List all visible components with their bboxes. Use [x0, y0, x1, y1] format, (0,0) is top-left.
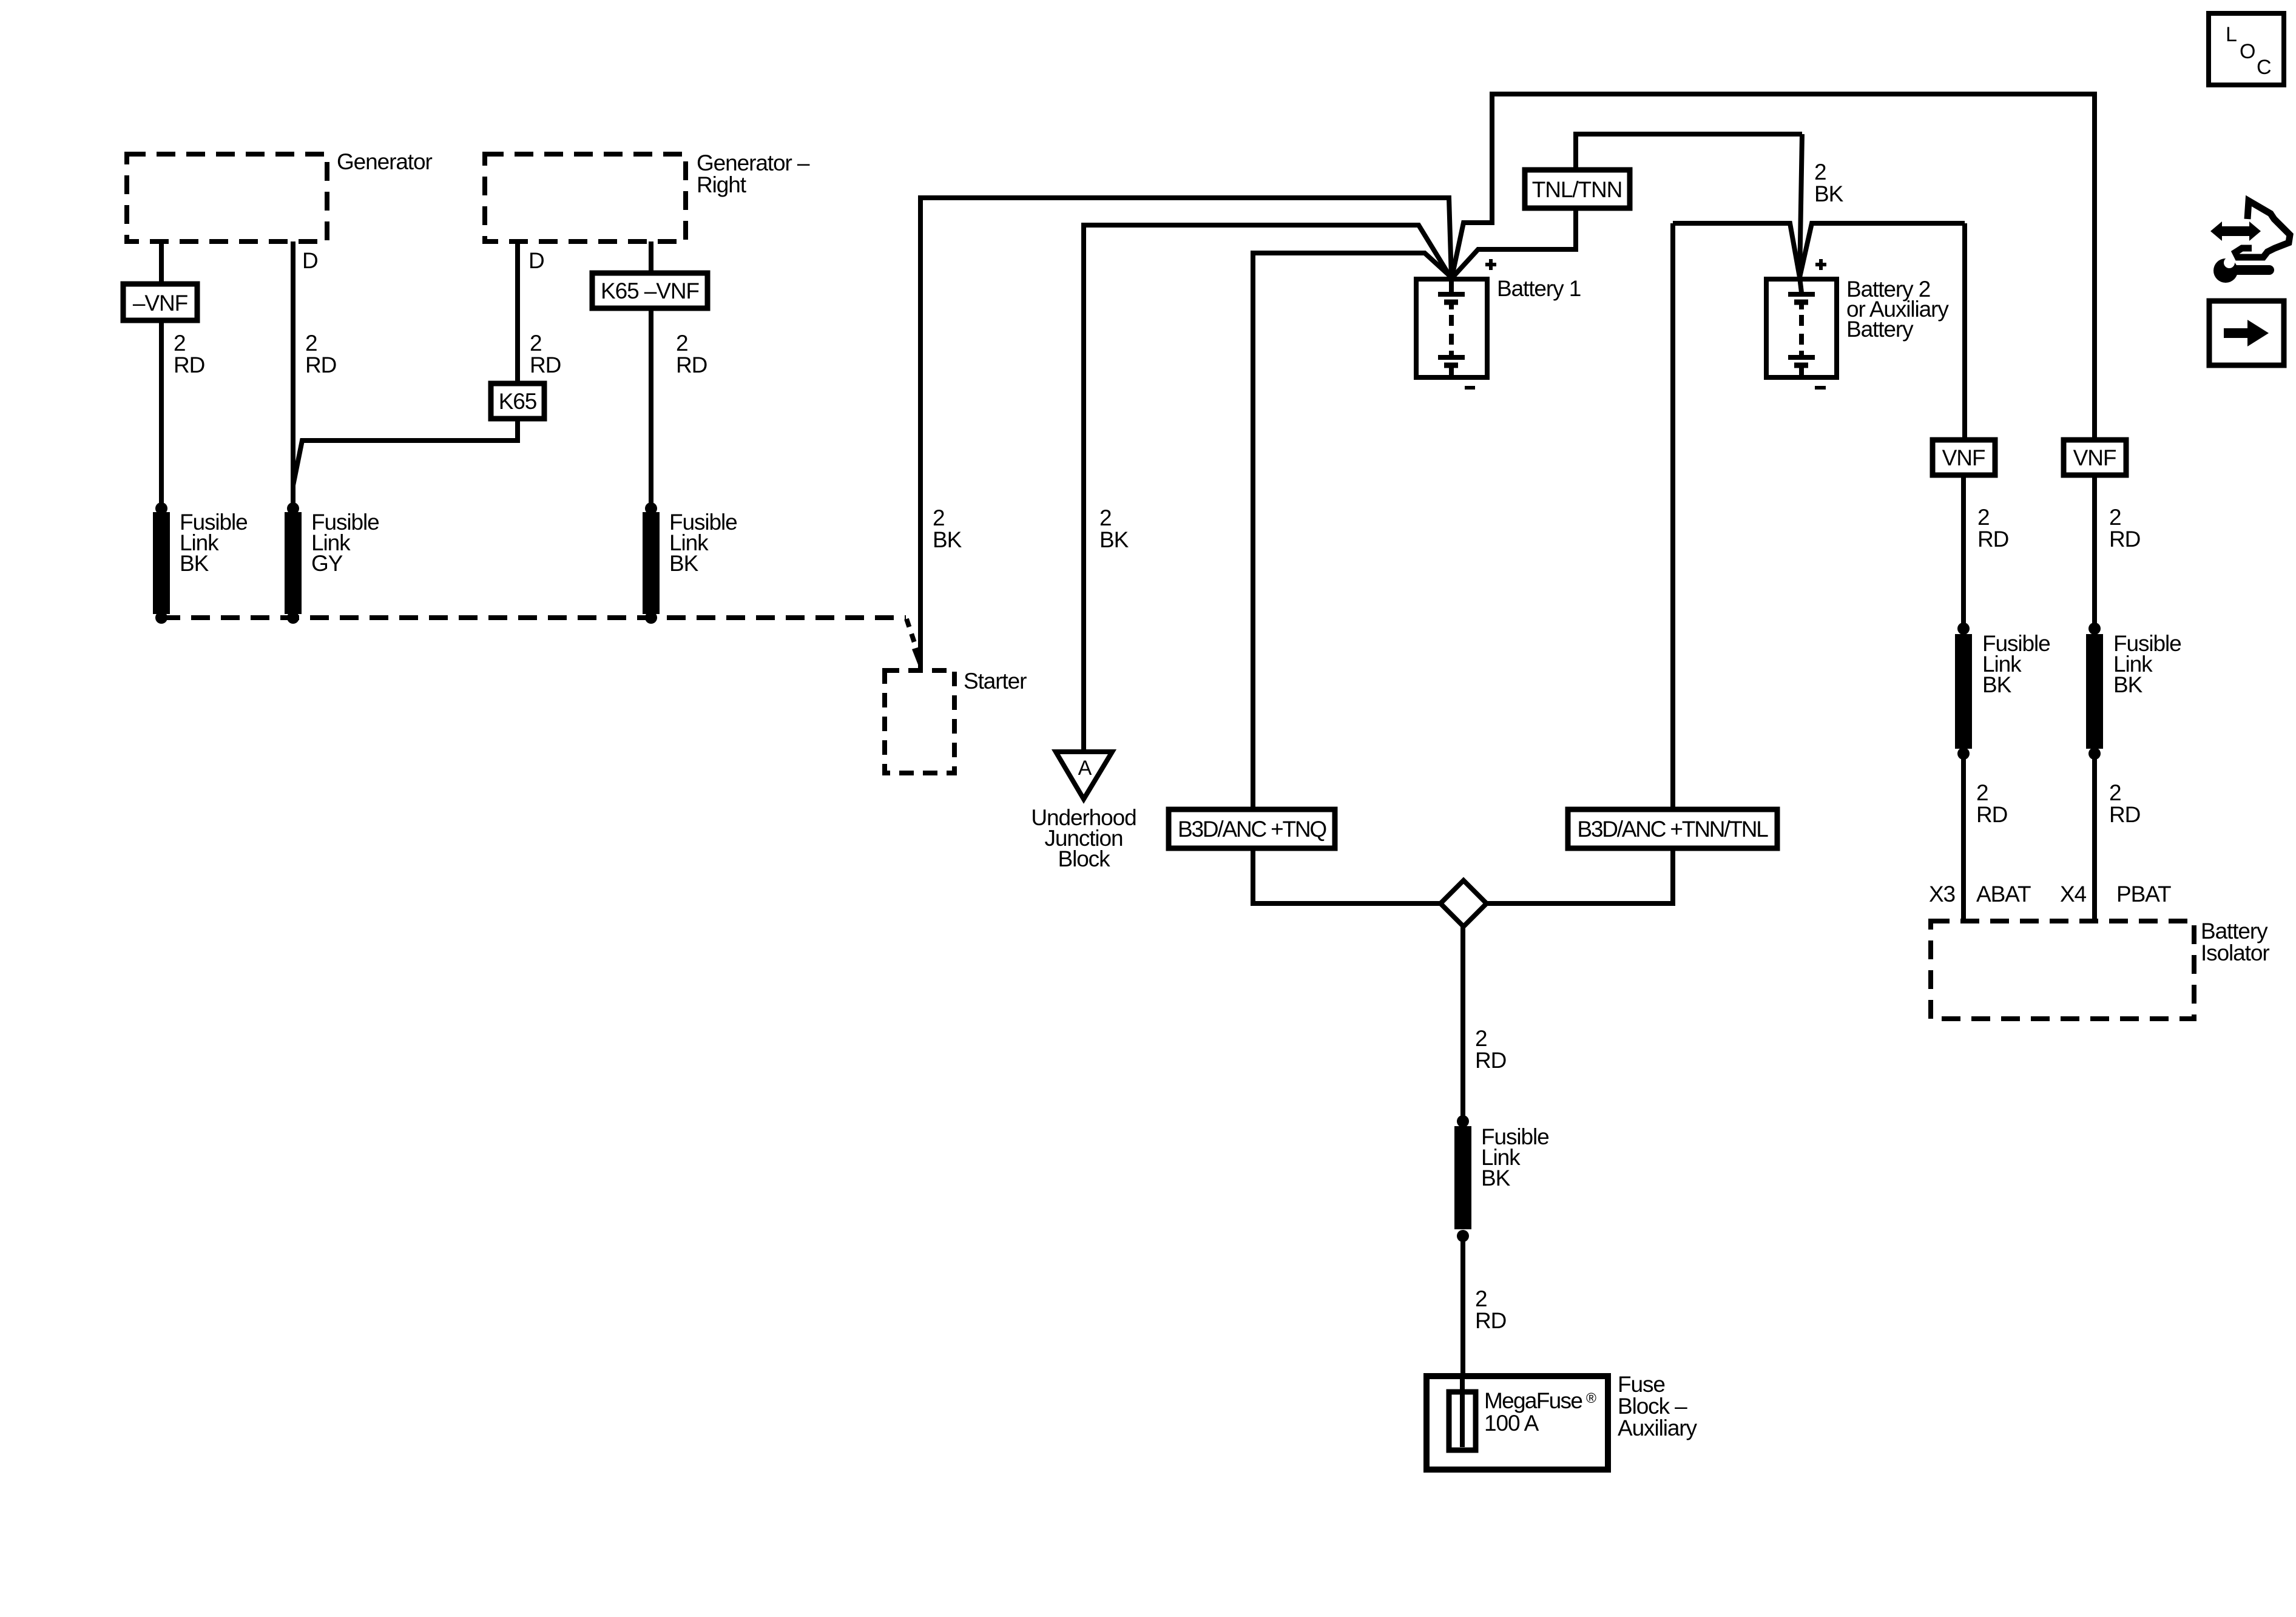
fuse block auxiliary box [1427, 1372, 1698, 1470]
svg-text:Isolator: Isolator [2201, 940, 2269, 965]
svg-text:RD: RD [1475, 1308, 1506, 1333]
svg-text:X3: X3 [1929, 882, 1955, 906]
svg-text:BK: BK [933, 527, 962, 552]
splice K65 [491, 383, 544, 419]
svg-text:GY: GY [311, 551, 343, 576]
splice diamond [1440, 880, 1487, 927]
svg-text:RD: RD [2109, 802, 2140, 827]
svg-text:O: O [2240, 40, 2255, 63]
wire TNL/TNN upper to battery 2 [1576, 134, 1802, 170]
fusible link BK (isolator left) [1955, 623, 2050, 760]
svg-text:2: 2 [2109, 505, 2121, 530]
svg-text:Generator: Generator [337, 149, 432, 174]
battery 1 cell box [1416, 279, 1487, 377]
svg-text:2: 2 [933, 505, 944, 530]
svg-text:2: 2 [1814, 160, 1826, 184]
fuse MegaFuse 100 A [1449, 1392, 1476, 1450]
fusible link BK (left) [153, 502, 248, 624]
component view icon (double arrow, outline, wrench) [2210, 201, 2290, 283]
svg-text:RD: RD [305, 353, 336, 377]
svg-text:RD: RD [1977, 527, 2008, 552]
svg-text:MegaFuse: MegaFuse [1484, 1388, 1582, 1413]
svg-text:Right: Right [697, 172, 747, 197]
wire from generator to -VNF [159, 241, 164, 284]
svg-text:RD: RD [676, 353, 707, 377]
wire + terminal stub [1800, 277, 1801, 292]
svg-text:BK: BK [180, 551, 209, 576]
svg-text:®: ® [1586, 1390, 1596, 1406]
wire D 2 RD from generator [291, 241, 295, 508]
wire battery 2 horizontal right branch [1800, 223, 1965, 277]
svg-text:C: C [2257, 56, 2272, 79]
fusible link BK (generator right) [643, 502, 737, 624]
svg-text:RD: RD [530, 353, 561, 377]
svg-text:RD: RD [2109, 527, 2140, 552]
svg-text:Fuse: Fuse [1618, 1372, 1665, 1397]
svg-text:–VNF: –VNF [133, 291, 188, 316]
svg-text:ABAT: ABAT [1976, 882, 2031, 906]
plus terminal label [1485, 259, 1496, 270]
battery 2 cell box [1766, 279, 1837, 377]
wire 2 RD to X4 PBAT [2092, 754, 2097, 921]
wire to B3D/ANC +TNN/TNL [1670, 223, 1675, 809]
svg-text:RD: RD [1976, 802, 2007, 827]
dashed bus wire to starter [161, 615, 906, 620]
wire 2 RD to X3 ABAT [1961, 754, 1966, 921]
wire 2 RD to fuse block [1460, 1236, 1465, 1376]
svg-text:VNF: VNF [2073, 445, 2116, 470]
svg-text:2: 2 [1976, 780, 1988, 805]
wire from B3D/ANC +TNN/TNL to splice diamond [1487, 848, 1673, 903]
fusible link GY [285, 502, 379, 624]
svg-text:BK: BK [1982, 672, 2012, 697]
svg-text:RD: RD [1475, 1048, 1506, 1073]
wire into fuse [1460, 1376, 1465, 1447]
svg-text:2: 2 [530, 331, 541, 356]
minus terminal label [1465, 386, 1475, 390]
svg-text:K65 –VNF: K65 –VNF [601, 279, 699, 303]
minus terminal label [1815, 386, 1826, 390]
svg-text:BK: BK [1481, 1166, 1511, 1190]
svg-text:B3D/ANC +TNN/TNL: B3D/ANC +TNN/TNL [1577, 817, 1768, 842]
wire from B3D/ANC +TNQ to splice diamond [1253, 848, 1440, 903]
wire 2 RD from -VNF to fusible link [159, 320, 164, 508]
battery isolator dashed box [1931, 919, 2269, 1019]
svg-text:BK: BK [1814, 181, 1844, 206]
svg-text:BK: BK [2113, 672, 2143, 697]
svg-text:2: 2 [305, 331, 317, 356]
svg-text:PBAT: PBAT [2116, 882, 2171, 906]
splice VNF (left) [1933, 440, 1995, 475]
wire D 2 RD generator right to K65 [515, 241, 520, 383]
wire 2 RD below VNF right [2092, 475, 2097, 629]
wire to VNF left [1962, 223, 1967, 440]
dashed arrow into starter [907, 619, 916, 648]
wire 2 RD below VNF left [1961, 475, 1966, 629]
svg-text:Auxiliary: Auxiliary [1618, 1416, 1698, 1440]
wire 2 BK underhood junction block to battery 1 + [1084, 225, 1450, 752]
connector B3D/ANC +TNQ [1169, 809, 1335, 848]
svg-text:2: 2 [1475, 1286, 1487, 1311]
svg-text:Battery: Battery [2201, 919, 2268, 944]
svg-text:D: D [528, 248, 544, 273]
connector B3D/ANC +TNN/TNL [1568, 809, 1777, 848]
splice K65 -VNF [592, 273, 707, 308]
svg-text:D: D [302, 248, 318, 273]
wire 2 RD below diamond [1460, 927, 1465, 1121]
wire B3D/ANC +TNQ vertical [1253, 253, 1451, 809]
wire to K65 -VNF [649, 241, 653, 273]
svg-text:B3D/ANC +TNQ: B3D/ANC +TNQ [1178, 817, 1326, 842]
fusible link BK (isolator right) [2086, 623, 2181, 760]
svg-text:Battery 1: Battery 1 [1497, 276, 1581, 301]
svg-text:2: 2 [1977, 505, 1989, 530]
svg-text:K65: K65 [499, 389, 537, 414]
plus terminal label [1815, 259, 1826, 270]
svg-text:2: 2 [174, 331, 185, 356]
svg-text:100 A: 100 A [1484, 1411, 1539, 1436]
wire 2 BK to battery 2 + [1800, 134, 1802, 277]
svg-text:RD: RD [174, 353, 204, 377]
svg-text:X4: X4 [2060, 882, 2087, 906]
svg-text:2: 2 [1099, 505, 1111, 530]
splice VNF (right) [2064, 440, 2126, 475]
svg-text:TNL/TNN: TNL/TNN [1532, 177, 1622, 202]
splice TNL/TNN [1525, 170, 1630, 208]
battery 2 plates [1788, 292, 1815, 297]
svg-text:2: 2 [1475, 1026, 1487, 1051]
generator (left) dashed box [127, 149, 432, 241]
svg-text:2: 2 [676, 331, 687, 356]
wire 2 BK starter to battery 1 + [920, 198, 1451, 670]
forward arrow icon [2209, 301, 2284, 365]
svg-text:BK: BK [669, 551, 699, 576]
svg-text:Generator –: Generator – [697, 150, 810, 175]
battery 1 plates [1438, 292, 1465, 297]
wire 2 RD below K65 -VNF [649, 308, 653, 508]
starter dashed box [885, 669, 1027, 773]
underhood junction block triangle A [1031, 752, 1136, 871]
wire TNL/TNN lower [1453, 208, 1576, 277]
wire battery 2 horizontal left branch [1673, 223, 1800, 277]
svg-text:2: 2 [2109, 780, 2121, 805]
wire top line to VNF right [1452, 94, 2095, 440]
svg-text:A: A [1078, 757, 1092, 780]
svg-text:VNF: VNF [1942, 445, 1985, 470]
svg-text:Battery: Battery [1846, 317, 1914, 342]
wire + terminal stub [1449, 277, 1454, 292]
battery 1 [1416, 259, 1581, 388]
svg-text:L: L [2226, 23, 2237, 46]
svg-text:Starter: Starter [964, 669, 1027, 694]
svg-text:Block: Block [1058, 846, 1111, 871]
battery 2 or auxiliary battery [1766, 259, 1949, 388]
svg-text:BK: BK [1099, 527, 1129, 552]
generator right dashed box [485, 150, 810, 241]
LOC icon [2209, 13, 2284, 85]
splice -VNF [123, 284, 197, 320]
fusible link BK (middle) [1454, 1115, 1549, 1242]
svg-text:Block –: Block – [1618, 1394, 1687, 1419]
wire from K65 joining wire D [293, 419, 518, 485]
